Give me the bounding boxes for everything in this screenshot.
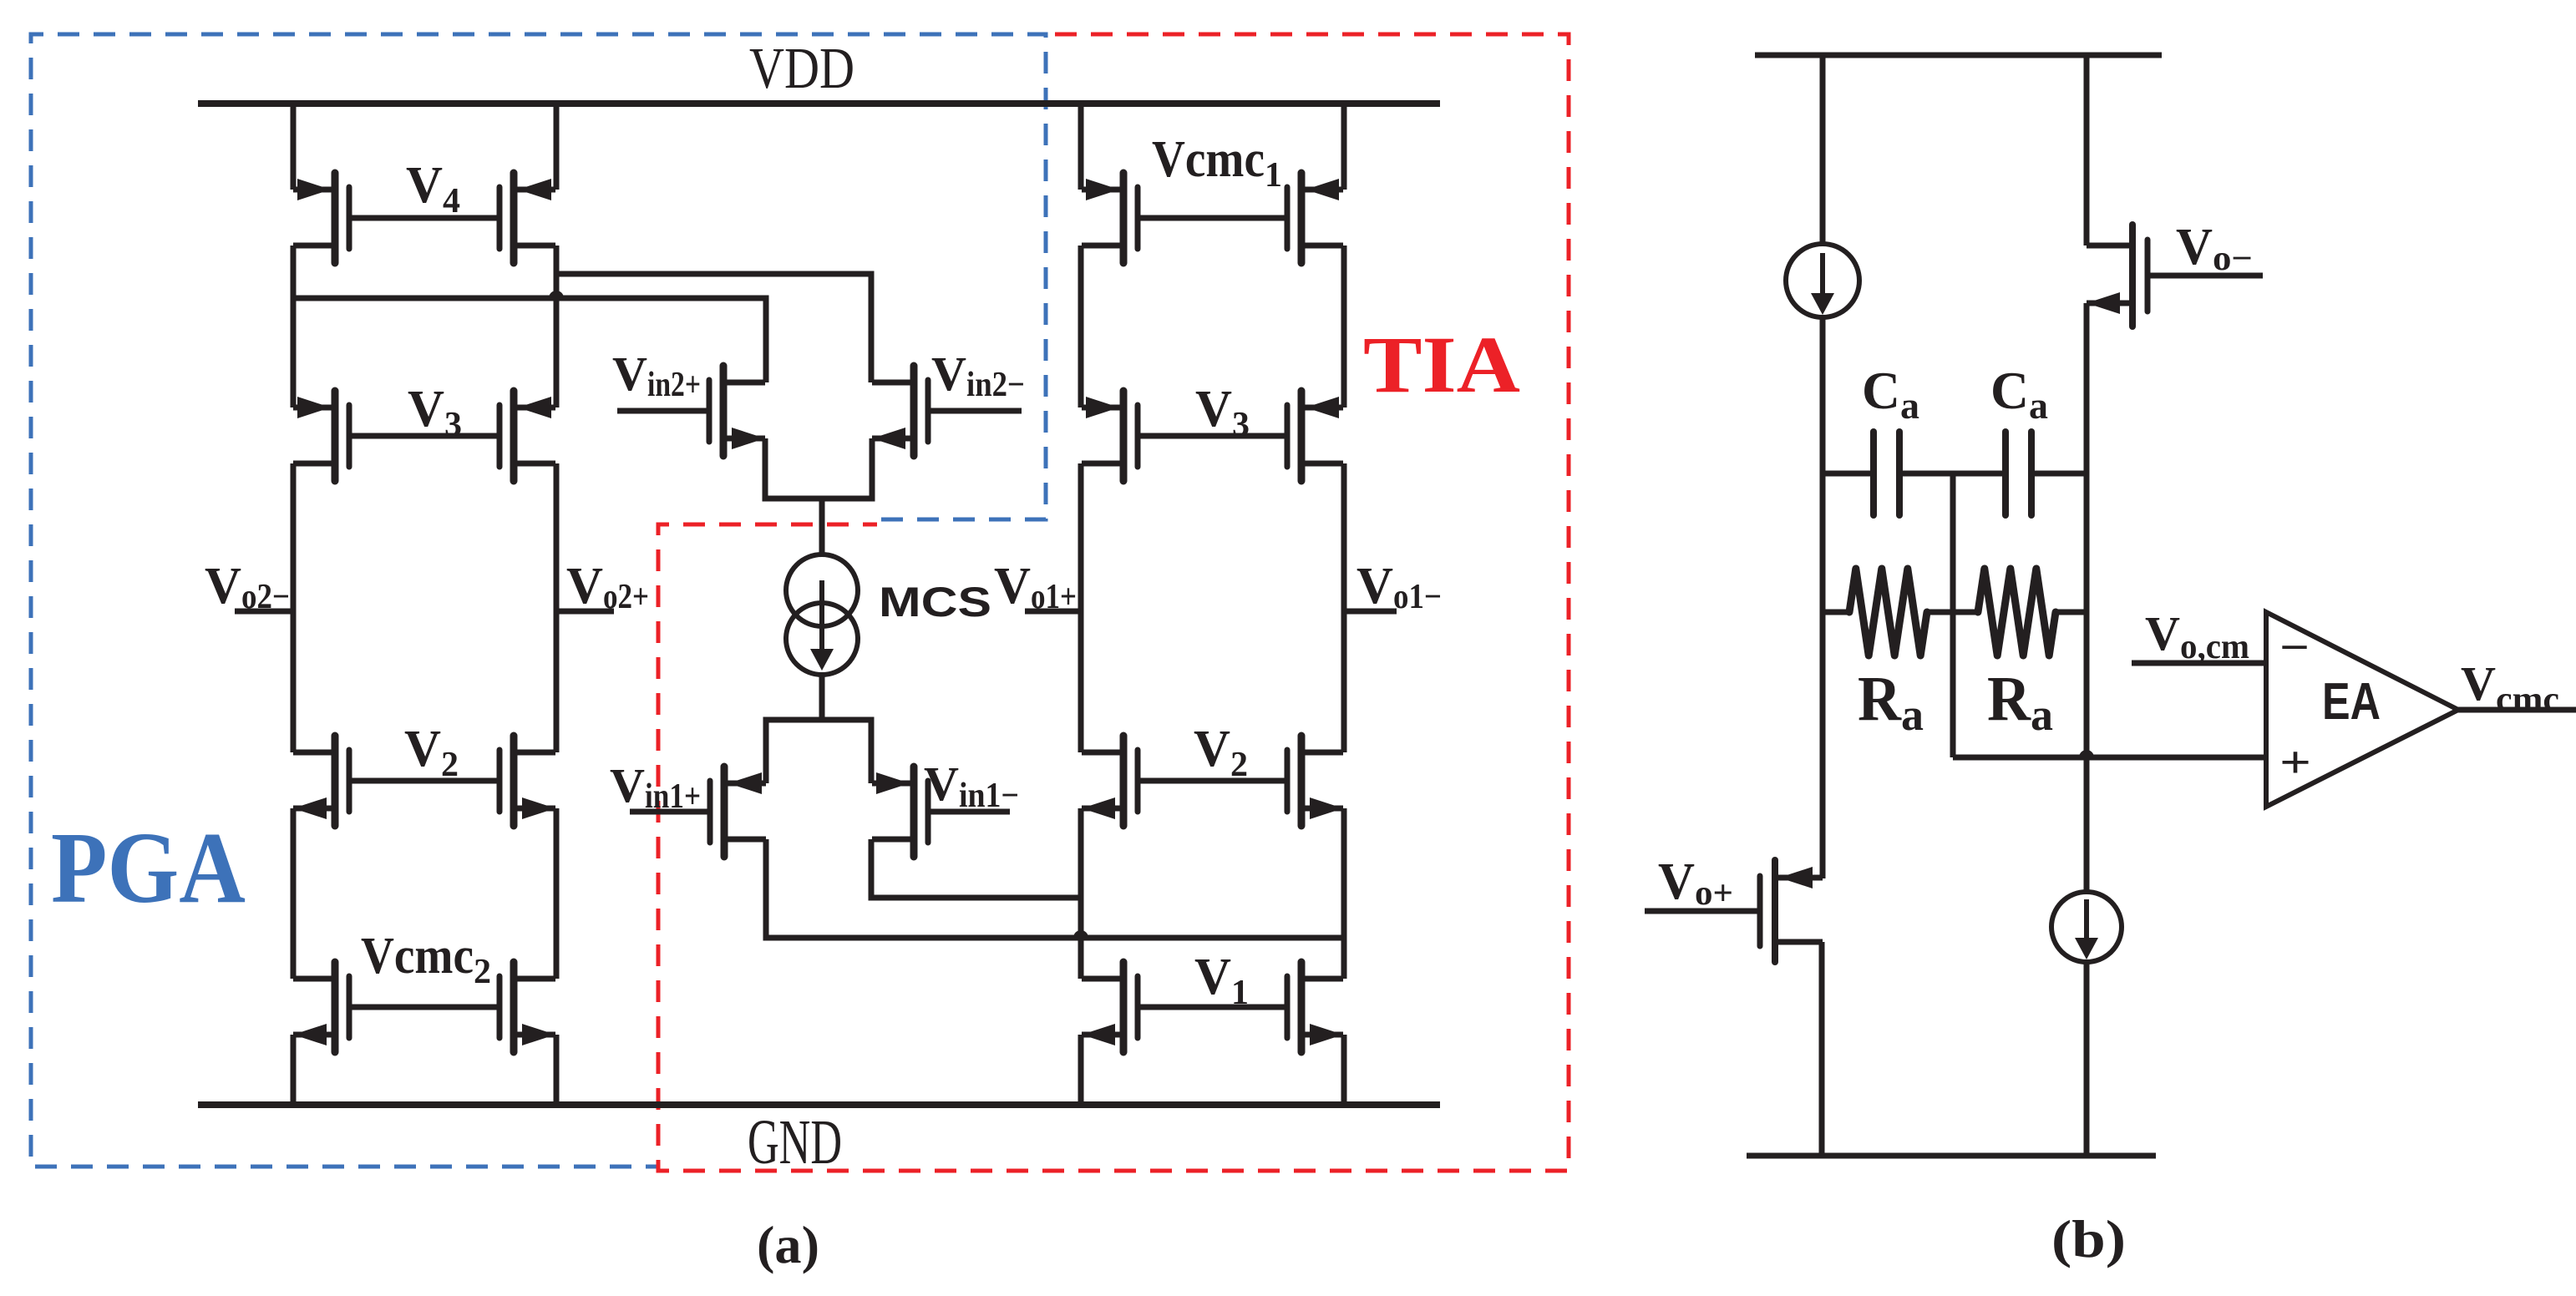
wire PGA right column Vcmc2 source to GND	[554, 1035, 560, 1105]
capacitor Ca right	[2006, 432, 2031, 515]
wire PGA left column VDD to V4 source	[291, 104, 297, 190]
b: wire top rail to Vo- drain	[2084, 55, 2090, 246]
label V3 TIA	[1195, 381, 1250, 444]
op-amp EA (error amplifier triangle)	[2266, 612, 2458, 807]
svg-text:cmc: cmc	[2496, 681, 2559, 719]
PGA region boundary (blue dashed box)	[31, 34, 1046, 1167]
label MCS	[879, 579, 991, 625]
label TIA	[1363, 320, 1520, 409]
transistor Vin2- (NMOS)	[872, 366, 928, 456]
node Vo1+ stub	[1025, 609, 1081, 615]
svg-text:V: V	[1356, 558, 1393, 615]
transistor Vin2+ (NMOS)	[709, 366, 765, 456]
b: wire top rail to current source	[1820, 55, 1826, 244]
label (a)	[757, 1215, 819, 1274]
TIA region boundary (red dashed box)	[658, 34, 1569, 1171]
label (b)	[2051, 1209, 2126, 1268]
label V1	[1194, 949, 1249, 1012]
label V2 TIA	[1194, 721, 1248, 784]
wire Vin2+ gate lead	[617, 408, 709, 414]
node Vo2- stub	[235, 609, 293, 615]
svg-text:R: R	[1858, 664, 1902, 734]
wire TIA right column Vcmc1 drain to V3 source	[1341, 246, 1347, 408]
svg-text:V: V	[1195, 381, 1232, 438]
svg-text:o+: o+	[1695, 874, 1733, 913]
wire PGA right column V2 source to Vcmc2 drain	[554, 808, 560, 979]
wire TIA left column Vcmc1 drain to V3 source	[1078, 246, 1084, 408]
transistor V1 right (NMOS)	[1287, 962, 1343, 1052]
svg-text:GND: GND	[748, 1107, 842, 1177]
svg-text:C: C	[1862, 361, 1900, 420]
svg-text:3: 3	[1232, 406, 1250, 444]
svg-text:3: 3	[444, 406, 462, 444]
svg-text:V: V	[205, 558, 241, 615]
svg-text:in2+: in2+	[647, 366, 701, 404]
label Vo,cm	[2145, 606, 2249, 666]
b: wire Vo+ gate lead	[1645, 909, 1760, 914]
wire TIA left column V1 source to GND	[1078, 1035, 1084, 1105]
current source MCS (stacked circles with down arrow)	[786, 554, 858, 675]
transistor V4 left (PMOS)	[293, 173, 349, 263]
wire Vcmc1 gate interconnect	[1138, 215, 1287, 221]
capacitor Ca left	[1874, 432, 1899, 515]
wire Vin1+ gate lead	[630, 809, 710, 815]
wire PGA right column V3 drain to V2 drain	[554, 463, 560, 752]
svg-text:V: V	[406, 157, 443, 214]
label V2 PGA	[404, 721, 459, 784]
b: wire Vo- source down right branch	[2084, 303, 2090, 892]
svg-text:a: a	[2031, 690, 2053, 740]
wire Vcmc2 gate interconnect	[349, 1005, 499, 1010]
wire Vin2- gate lead	[928, 408, 1022, 414]
svg-text:a: a	[1901, 690, 1924, 740]
svg-text:in2−: in2−	[966, 366, 1025, 404]
b: wire center node to EA + input (hops right branch)	[1953, 750, 2266, 757]
label Vo-	[2176, 219, 2253, 278]
b: wire center node down	[1950, 473, 1956, 757]
svg-text:o2+: o2+	[603, 578, 649, 616]
wire V4 right drain to Vin2- drain	[556, 274, 871, 382]
transistor Vcmc2 left (NMOS)	[293, 962, 349, 1052]
wire TIA left column VDD to Vcmc1 source	[1078, 104, 1084, 190]
label Vin1+	[610, 758, 701, 816]
b: wire current source to Vo+ source (left branch)	[1820, 317, 1826, 878]
svg-text:Vcmc: Vcmc	[361, 928, 474, 985]
label V4	[406, 157, 460, 220]
wire TIA left column V2 source to V1 drain	[1078, 808, 1084, 979]
label GND	[748, 1107, 842, 1177]
svg-text:o1+: o1+	[1031, 578, 1077, 616]
svg-text:2: 2	[474, 953, 491, 991]
svg-text:V: V	[408, 381, 444, 438]
svg-text:(a): (a)	[757, 1215, 819, 1274]
transistor Vcmc2 right (NMOS)	[499, 962, 555, 1052]
wire V3 PGA gate interconnect	[349, 433, 499, 439]
svg-text:C: C	[1990, 361, 2029, 420]
svg-text:4: 4	[443, 182, 460, 220]
wire TIA right column V2 source to V1 drain	[1341, 808, 1347, 979]
wire V3 TIA gate interconnect	[1138, 433, 1287, 439]
wire V1 gate interconnect	[1138, 1005, 1287, 1010]
svg-text:o1−: o1−	[1393, 578, 1442, 616]
wire TIA right column V1 source to GND	[1341, 1035, 1347, 1105]
svg-text:2: 2	[441, 746, 459, 784]
wire PGA left column Vcmc2 source to GND	[291, 1035, 297, 1105]
label Ca right	[1990, 361, 2048, 427]
label Vin2-	[931, 347, 1025, 404]
b: bottom rail	[1747, 1153, 2156, 1159]
b: top rail	[1755, 53, 2162, 58]
label Vcmc2	[361, 928, 491, 991]
svg-text:V: V	[566, 558, 603, 615]
transistor Vo- (source follower)	[2087, 225, 2148, 327]
label Vo+	[1658, 853, 1733, 913]
node Vo1- stub	[1344, 609, 1397, 615]
label EA plus input	[2279, 737, 2311, 787]
transistor Vcmc1 right (PMOS)	[1287, 173, 1343, 263]
wire Vin2 pair common source bracket	[765, 438, 872, 554]
label Vo1-	[1356, 558, 1442, 616]
label Vcmc	[2461, 656, 2559, 719]
wire TIA right column VDD to Vcmc1 source	[1341, 104, 1347, 190]
b: wire left node to capacitor Ca	[1823, 471, 1874, 477]
svg-text:in1−: in1−	[959, 777, 1019, 815]
b: wire between capacitors	[1899, 471, 2006, 477]
transistor V3 PGA left (PMOS)	[293, 391, 349, 481]
label Ca left	[1862, 361, 1919, 427]
b: current source I2 (circle with down arrow)	[2051, 892, 2122, 962]
svg-text:a: a	[1900, 384, 1919, 427]
transistor V3 TIA right (PMOS)	[1287, 391, 1343, 481]
label Vin2+	[612, 347, 701, 404]
svg-text:o−: o−	[2213, 240, 2253, 278]
b: wire Vo+ drain to bottom rail	[1819, 942, 1825, 1156]
b: wire current source to bottom rail	[2084, 962, 2090, 1156]
svg-text:o,cm: o,cm	[2180, 628, 2249, 666]
b: wire capacitor to right branch	[2031, 471, 2087, 477]
wire V2 TIA gate interconnect	[1138, 778, 1287, 784]
svg-text:V: V	[924, 757, 959, 811]
wire TIA right column V3 drain to V2 drain	[1341, 463, 1347, 752]
svg-text:V: V	[1194, 949, 1231, 1005]
wire Vin1+ drain to TIA right column (hops left column)	[766, 839, 1344, 938]
transistor V3 PGA right (PMOS)	[499, 391, 555, 481]
svg-text:V: V	[994, 558, 1031, 615]
svg-text:o2−: o2−	[241, 578, 290, 616]
svg-text:−: −	[2279, 622, 2310, 672]
label V3 PGA	[408, 381, 462, 444]
transistor Vin1+ (PMOS)	[710, 767, 766, 857]
label EA	[2322, 673, 2381, 731]
svg-text:R: R	[1987, 664, 2031, 734]
svg-text:TIA: TIA	[1363, 320, 1520, 409]
label PGA	[51, 812, 246, 924]
resistor Ra right	[1978, 569, 2087, 656]
wire Vin1- gate lead	[928, 809, 1010, 815]
transistor V1 left (NMOS)	[1082, 962, 1138, 1052]
transistor Vcmc1 left (PMOS)	[1082, 173, 1138, 263]
transistor Vo+ (source follower)	[1760, 860, 1823, 962]
GND rail	[198, 1101, 1440, 1108]
VDD rail	[198, 100, 1440, 107]
label VDD	[749, 37, 854, 101]
wire V4 gate interconnect	[349, 215, 499, 221]
wire V2 PGA gate interconnect	[349, 778, 499, 784]
svg-text:V: V	[404, 721, 441, 777]
svg-text:+: +	[2279, 737, 2311, 787]
svg-text:MCS: MCS	[879, 579, 991, 625]
svg-text:2: 2	[1230, 746, 1248, 784]
label Vo1+	[994, 558, 1077, 616]
svg-text:1: 1	[1231, 974, 1249, 1012]
label Vo2+	[566, 558, 649, 616]
label Ra right	[1987, 664, 2053, 740]
transistor V2 TIA left (NMOS)	[1082, 736, 1138, 826]
svg-text:V: V	[2145, 606, 2180, 661]
svg-text:V: V	[1658, 853, 1695, 910]
label Vo2-	[205, 558, 290, 616]
wire PGA left column V4 drain to V3 source	[291, 246, 297, 408]
label Vcmc1	[1152, 131, 1282, 195]
transistor Vin1- (PMOS)	[872, 767, 928, 857]
label Vin1-	[924, 757, 1019, 815]
wire MCS to Vin1 pair source bracket	[766, 675, 871, 783]
transistor V2 PGA right (NMOS)	[499, 736, 555, 826]
transistor V3 TIA left (PMOS)	[1082, 391, 1138, 481]
svg-text:EA: EA	[2322, 673, 2381, 731]
b: current source I1 (circle with down arrow)	[1786, 244, 1859, 317]
svg-text:(b): (b)	[2051, 1209, 2126, 1268]
transistor V2 TIA right (NMOS)	[1287, 736, 1343, 826]
wire V4 left drain to Vin2+ drain (hops right column)	[293, 291, 766, 382]
svg-text:V: V	[2461, 656, 2496, 711]
wire PGA right column VDD to V4 source	[554, 104, 560, 190]
label EA minus input	[2279, 622, 2310, 672]
wire PGA left column V2 source to Vcmc2 drain	[291, 808, 297, 979]
wire TIA left column V3 drain to V2 drain	[1078, 463, 1084, 752]
svg-text:V: V	[2176, 219, 2213, 276]
b: wire EA output Vcmc	[2458, 707, 2576, 713]
svg-text:1: 1	[1265, 156, 1282, 195]
svg-text:V: V	[610, 758, 645, 813]
node Vo2+ stub	[556, 609, 614, 615]
b: wire Vo,cm to EA - input	[2132, 661, 2266, 666]
svg-text:V: V	[931, 347, 966, 401]
resistor Ra left	[1823, 569, 1978, 656]
svg-text:PGA: PGA	[51, 812, 246, 924]
b: wire Vo- gate lead	[2148, 273, 2263, 279]
wire Vin1- drain to TIA left column	[871, 839, 1081, 898]
label Ra left	[1858, 664, 1924, 740]
svg-text:Vcmc: Vcmc	[1152, 131, 1265, 188]
svg-text:in1+: in1+	[645, 777, 701, 816]
transistor V4 right (PMOS)	[499, 173, 555, 263]
svg-text:V: V	[612, 347, 647, 401]
transistor V2 PGA left (NMOS)	[293, 736, 349, 826]
wire PGA left column V3 drain to V2 drain	[291, 463, 297, 752]
svg-text:V: V	[1194, 721, 1230, 777]
wire PGA right column V4 drain to V3 source	[554, 246, 560, 408]
svg-text:a: a	[2029, 384, 2048, 427]
svg-text:VDD: VDD	[749, 37, 854, 101]
